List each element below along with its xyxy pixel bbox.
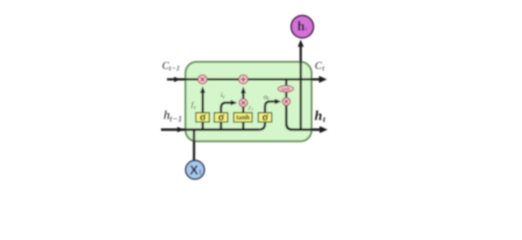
- svg-text:t: t: [305, 25, 307, 32]
- svg-text:h: h: [315, 109, 323, 124]
- svg-text:tanh: tanh: [281, 87, 290, 93]
- svg-text:h: h: [297, 18, 305, 33]
- svg-text:X: X: [190, 163, 199, 178]
- svg-text:tanh: tanh: [236, 114, 250, 122]
- svg-text:σ: σ: [262, 112, 269, 124]
- svg-text:t: t: [322, 64, 325, 73]
- svg-text:σ: σ: [200, 112, 207, 124]
- svg-text:t: t: [199, 170, 201, 177]
- svg-text:t: t: [323, 114, 326, 124]
- svg-text:σ: σ: [218, 112, 225, 124]
- svg-text:t−1: t−1: [169, 63, 180, 72]
- svg-text:t−1: t−1: [170, 114, 182, 124]
